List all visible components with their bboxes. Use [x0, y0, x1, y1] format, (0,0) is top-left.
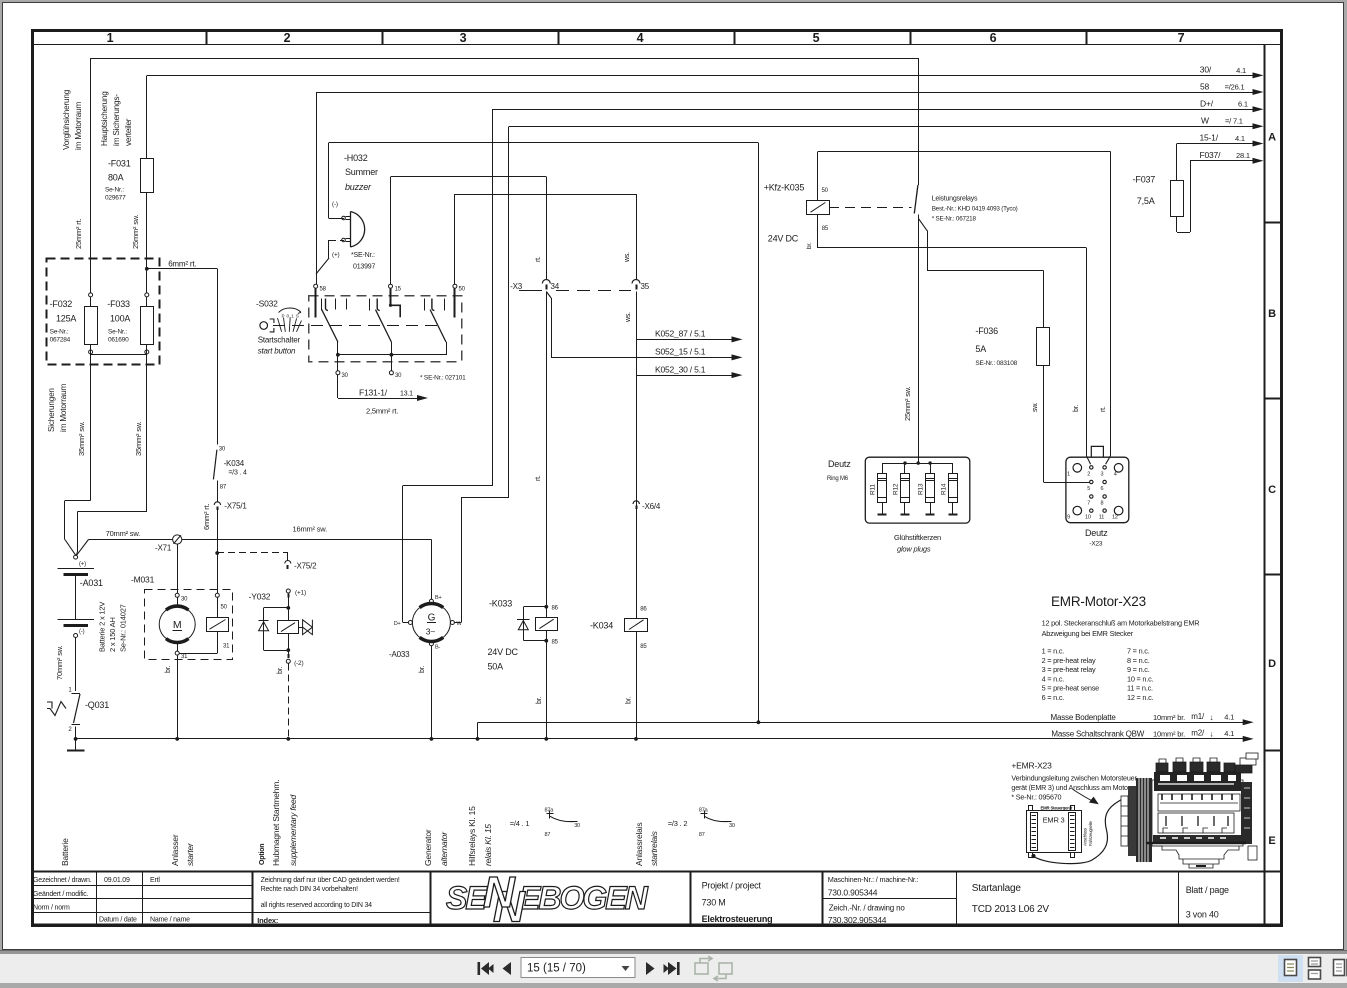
- svg-text:11 = n.c.: 11 = n.c.: [1127, 684, 1153, 693]
- svg-text:=/3 . 4: =/3 . 4: [228, 470, 247, 477]
- svg-text:4.1: 4.1: [1235, 134, 1245, 143]
- svg-text:Index:: Index:: [257, 916, 278, 925]
- wire into pin2: [1087, 456, 1091, 464]
- fuse clip F033 top: [145, 293, 149, 297]
- svg-text:2 x 150 AH: 2 x 150 AH: [108, 617, 117, 652]
- svg-text:2 = pre-heat relay: 2 = pre-heat relay: [1042, 656, 1096, 665]
- wire W staircase: [454, 622, 461, 624]
- valve symbol Y032: [299, 627, 303, 629]
- wire K035 coil bottom: [817, 214, 819, 248]
- svg-text:6mm² rt.: 6mm² rt.: [168, 260, 196, 269]
- pin 4 X23: [1114, 464, 1123, 473]
- terminal 15 S032: [389, 284, 393, 288]
- wire masse bodenplatte riser: [477, 722, 479, 739]
- svg-text:067284: 067284: [50, 337, 71, 344]
- wire F031 to F033: [146, 192, 148, 293]
- svg-text:Batterie 2 x 12V: Batterie 2 x 12V: [98, 602, 107, 652]
- svg-text:sw.: sw.: [1032, 402, 1039, 412]
- connector X75/1: [214, 502, 220, 505]
- svg-text:Blatt / page: Blatt / page: [1186, 885, 1229, 895]
- svg-text:061690: 061690: [108, 337, 129, 344]
- title block divider x822: [822, 871, 824, 924]
- svg-text:125A: 125A: [56, 314, 76, 324]
- toolbar continuous layout button: [1309, 958, 1321, 980]
- svg-text:1: 1: [1067, 472, 1070, 478]
- fuse clip F033 bottom: [145, 350, 149, 354]
- svg-text:im Sicherungs-: im Sicherungs-: [112, 94, 121, 146]
- generator A033 terminal B-: [429, 642, 433, 646]
- svg-text:Masse Schaltschrank QBW: Masse Schaltschrank QBW: [1051, 730, 1144, 739]
- engine illustration: [1121, 753, 1258, 868]
- svg-text:4: 4: [637, 31, 644, 45]
- column tick 4: [734, 30, 736, 45]
- wire coil to (-2): [288, 634, 290, 657]
- svg-text:=/ 7.1: =/ 7.1: [1225, 117, 1243, 126]
- svg-text:rt.: rt.: [1100, 406, 1107, 412]
- svg-text:7,5A: 7,5A: [1137, 196, 1155, 206]
- svg-text:6: 6: [1101, 486, 1104, 492]
- fuse F031: [141, 159, 154, 193]
- svg-text:A: A: [1268, 132, 1276, 144]
- logo SENNEBOGEN: [446, 868, 649, 932]
- svg-text:730 M: 730 M: [702, 898, 726, 908]
- svg-text:=/26.1: =/26.1: [1225, 83, 1245, 92]
- arrow 30/4.1: [1253, 72, 1264, 78]
- arrow masse schaltschrank: [1243, 736, 1254, 742]
- wire K034 85 to ground: [636, 632, 638, 739]
- svg-text:buzzer: buzzer: [345, 182, 372, 192]
- svg-text:11: 11: [1099, 515, 1104, 521]
- svg-text:Glühstiftkerzen: Glühstiftkerzen: [894, 533, 941, 542]
- svg-text:35: 35: [641, 282, 650, 291]
- svg-text:2: 2: [284, 31, 291, 45]
- svg-text:6.1: 6.1: [1238, 100, 1248, 109]
- svg-text:50: 50: [459, 287, 466, 293]
- svg-text:P 0 1 S: P 0 1 S: [282, 314, 300, 319]
- wire F037 top: [1176, 144, 1178, 181]
- svg-text:* Se-Nr.: 095670: * Se-Nr.: 095670: [1011, 793, 1061, 802]
- EMR 3 connector strip left: [1031, 813, 1038, 851]
- column tick 3: [558, 30, 560, 45]
- node bus feed: [917, 461, 920, 464]
- wire X71 down to starter 30: [177, 544, 179, 593]
- title block divider x957: [956, 871, 958, 924]
- glow plug R14: [952, 463, 954, 473]
- wire 50 to solenoid coil: [217, 597, 219, 617]
- pin 10 X23: [1090, 509, 1093, 512]
- terminal 30a S032: [336, 371, 340, 375]
- wire F032 down to battery: [90, 355, 92, 501]
- svg-text:029677: 029677: [105, 195, 126, 202]
- svg-text:87a: 87a: [699, 808, 709, 814]
- svg-text:-K034: -K034: [224, 459, 245, 468]
- connector X23 key notch: [1091, 446, 1103, 457]
- svg-text:6 = n.c.: 6 = n.c.: [1042, 693, 1065, 702]
- svg-text:(-2): (-2): [294, 660, 303, 667]
- svg-text:Se-Nr.: 014027: Se-Nr.: 014027: [119, 604, 128, 652]
- wire H032 left drop: [328, 143, 330, 218]
- relay coil K033: [536, 618, 558, 631]
- svg-text:4.1: 4.1: [1236, 66, 1246, 75]
- wire Y032 dashed to ground: [288, 663, 290, 739]
- wire K033 coil stub: [546, 607, 548, 618]
- wire contact to glow plugs: [918, 218, 920, 461]
- wire D+/6.1 line y109: [493, 109, 1253, 111]
- wire D+ staircase: [403, 622, 408, 624]
- glow plug bus: [882, 463, 953, 465]
- svg-text:9 = n.c.: 9 = n.c.: [1127, 665, 1150, 674]
- pin 1 X23: [1073, 464, 1082, 473]
- fixed contacts S032 group2: [369, 299, 371, 311]
- svg-text:35mm² sw.: 35mm² sw.: [77, 421, 86, 456]
- title block divider x431: [430, 871, 432, 924]
- svg-text:Se-Nr.:: Se-Nr.:: [50, 329, 69, 336]
- generator A033 terminal D+: [408, 621, 412, 625]
- wire bar to terminal 30a: [337, 355, 339, 371]
- svg-text:87: 87: [545, 832, 551, 838]
- node bus R12: [903, 461, 906, 464]
- generator A033 body: [412, 604, 450, 642]
- fixed contacts S032 group3: [424, 299, 426, 311]
- svg-text:30/: 30/: [1200, 65, 1212, 75]
- svg-text:br.: br.: [806, 242, 813, 249]
- EMR 3 connector strip right: [1069, 813, 1076, 851]
- svg-text:Deutz: Deutz: [1085, 528, 1108, 538]
- wire 58 bus drop: [316, 92, 318, 284]
- pin 12 X23: [1114, 506, 1123, 515]
- svg-text:+Kfz-K035: +Kfz-K035: [764, 183, 805, 193]
- toolbar previous view button disabled: [695, 956, 712, 974]
- arrow 15-1/4.1: [1253, 141, 1264, 147]
- svg-text:85: 85: [822, 226, 829, 232]
- svg-text:50: 50: [822, 188, 829, 194]
- svg-text:B+: B+: [435, 595, 441, 601]
- wire F036 to X23 pin5: [1043, 366, 1045, 483]
- svg-text:Zeich.-Nr. / drawing no: Zeich.-Nr. / drawing no: [829, 904, 906, 913]
- toolbar single page layout button active: [1278, 955, 1303, 982]
- svg-text:br.: br.: [165, 666, 172, 673]
- svg-text:-F033: -F033: [107, 299, 130, 309]
- wire F037 bottom jog: [1176, 216, 1178, 232]
- svg-text:85: 85: [640, 644, 647, 650]
- svg-text:5A: 5A: [975, 344, 986, 354]
- node bus R13: [928, 461, 931, 464]
- svg-text:im Motorraum: im Motorraum: [74, 102, 83, 150]
- svg-text:Gezeichnet / drawn.: Gezeichnet / drawn.: [33, 877, 92, 884]
- svg-text:-X75/2: -X75/2: [294, 562, 317, 571]
- generator A033 terminal B+: [429, 599, 433, 603]
- svg-text:58: 58: [1200, 81, 1210, 91]
- svg-text:Rechte nach DIN 34 vorbehalten: Rechte nach DIN 34 vorbehalten!: [261, 886, 359, 893]
- rotary switch symbol S032: [260, 322, 268, 330]
- svg-text:12 pol. Steckeranschluß am Mot: 12 pol. Steckeranschluß am Motorkabelstr…: [1042, 619, 1200, 628]
- svg-text:4.1: 4.1: [1224, 729, 1234, 738]
- arrow to cable: [1073, 790, 1092, 801]
- svg-text:S052_15 / 5.1: S052_15 / 5.1: [655, 347, 706, 357]
- node H032 masse: [757, 720, 761, 724]
- svg-text:Startanlage: Startanlage: [972, 883, 1022, 894]
- svg-text:013997: 013997: [353, 264, 375, 271]
- svg-text:2,5mm² rt.: 2,5mm² rt.: [366, 407, 398, 416]
- wire 50 up and over: [454, 194, 456, 284]
- svg-text:Projekt / project: Projekt / project: [702, 881, 762, 891]
- wire 30 battery bus y58: [91, 58, 919, 60]
- svg-text:87: 87: [699, 832, 705, 838]
- wire fuse bottoms join: [90, 344, 92, 355]
- svg-text:-H032: -H032: [344, 153, 368, 163]
- node riser ground: [476, 737, 480, 741]
- svg-text:28.1: 28.1: [1236, 151, 1250, 160]
- buzzer H032 body: [351, 212, 365, 248]
- svg-text:100A: 100A: [110, 314, 130, 324]
- frame right band line: [1264, 45, 1266, 925]
- svg-text:SE-Nr.: 083108: SE-Nr.: 083108: [975, 360, 1017, 367]
- diode K033 branch: [523, 606, 546, 608]
- wire K033 85 to ground: [546, 641, 548, 739]
- svg-text:D+: D+: [394, 621, 401, 627]
- ground symbol battery: [75, 739, 77, 751]
- svg-text:7: 7: [1087, 501, 1090, 507]
- starter M031 dashed box: [145, 590, 233, 660]
- svg-text:-F032: -F032: [50, 299, 73, 309]
- svg-text:EMR 3: EMR 3: [1043, 816, 1065, 825]
- dashed link K035: [829, 207, 911, 209]
- svg-text:EMR-Motor-X23: EMR-Motor-X23: [1051, 594, 1146, 609]
- battery A031 cell1 long plate: [58, 568, 94, 570]
- toolbar previous page button: [503, 962, 512, 975]
- svg-text:-K033: -K033: [489, 599, 512, 609]
- dashed box Sicherungen im Motorraum: [47, 259, 160, 365]
- start switch S032 dashed box: [309, 296, 462, 362]
- svg-text:B: B: [1268, 308, 1276, 320]
- svg-text:Name / name: Name / name: [150, 917, 190, 924]
- terminal (-2) Y032: [286, 659, 290, 663]
- column tick 1: [206, 30, 208, 45]
- svg-text:Summer: Summer: [345, 167, 378, 177]
- svg-text:EMR Steuergerät: EMR Steuergerät: [1041, 805, 1073, 810]
- pin 5 X23: [1090, 480, 1093, 483]
- svg-text:10mm² br.: 10mm² br.: [1153, 713, 1185, 722]
- svg-text:16mm² sw.: 16mm² sw.: [293, 525, 328, 534]
- wire buzzer plus to 58: [329, 240, 336, 242]
- wire masse bodenplatte: [478, 722, 1244, 724]
- svg-text:br.: br.: [536, 697, 543, 704]
- wire K052_87 line: [636, 339, 734, 341]
- title block divider x1179: [1178, 871, 1180, 924]
- wire F037/28.1 line y161: [1190, 160, 1253, 162]
- svg-text:Best.-Nr.: KHD 0419 4093 (Tyco: Best.-Nr.: KHD 0419 4093 (Tyco): [932, 206, 1018, 213]
- svg-text:30: 30: [342, 373, 349, 379]
- glow plug R11: [882, 463, 884, 473]
- wire (+1) to coil: [288, 598, 290, 621]
- connector X71: [173, 535, 182, 544]
- svg-text:-F031: -F031: [108, 159, 131, 169]
- svg-text:58: 58: [320, 287, 327, 293]
- svg-text:rt.: rt.: [535, 256, 542, 262]
- svg-text:4 = n.c.: 4 = n.c.: [1042, 674, 1065, 683]
- svg-text:start button: start button: [258, 347, 296, 356]
- svg-text:Anlassrelais: Anlassrelais: [634, 823, 644, 866]
- svg-text:6: 6: [990, 31, 997, 45]
- wire 70mm to X71: [89, 539, 173, 541]
- svg-text:6mm² rt.: 6mm² rt.: [202, 504, 211, 530]
- wire solenoid to 31 node: [217, 631, 219, 653]
- svg-text:80A: 80A: [108, 173, 124, 183]
- fixed contacts S032 group1: [321, 299, 323, 311]
- svg-text:24V DC: 24V DC: [768, 234, 799, 244]
- svg-text:Geändert / modific.: Geändert / modific.: [33, 891, 89, 898]
- wire W/7.1 line y126: [509, 126, 1253, 128]
- svg-text:-K034: -K034: [590, 621, 613, 631]
- toolbar facing pages layout button: [1334, 960, 1347, 976]
- svg-text:* SE-Nr.: 027101: * SE-Nr.: 027101: [420, 375, 466, 382]
- svg-text:24V DC: 24V DC: [488, 647, 519, 657]
- svg-text:E: E: [1268, 835, 1275, 847]
- svg-text:m1/: m1/: [1191, 712, 1205, 721]
- wire F033 down to battery: [146, 355, 148, 512]
- svg-text:7: 7: [1178, 31, 1185, 45]
- node common bar left: [336, 353, 340, 357]
- terminal (+1) Y032: [286, 589, 290, 593]
- node K033 86: [544, 605, 548, 609]
- svg-text:8 = n.c.: 8 = n.c.: [1127, 656, 1150, 665]
- svg-text:m2/: m2/: [1191, 729, 1205, 738]
- svg-text:Anschluss: Anschluss: [1083, 828, 1088, 846]
- svg-text:ws.: ws.: [624, 252, 631, 263]
- wire 15-1/4.1 line y143: [1177, 143, 1253, 145]
- svg-text:Generator: Generator: [423, 829, 433, 866]
- buzzer H032 contacts: [329, 218, 345, 220]
- frame bottom thick edge: [31, 923, 1282, 925]
- wire S052_15 line: [551, 357, 733, 359]
- svg-text:Verbindungsleitung zwischen Mo: Verbindungsleitung zwischen Motorsteuer-: [1011, 774, 1139, 783]
- svg-text:Datum / date: Datum / date: [99, 917, 137, 924]
- svg-text:alternator: alternator: [439, 831, 449, 866]
- wire bar to terminal 30b: [391, 355, 393, 371]
- fuse F032: [85, 307, 98, 345]
- svg-text:-Y032: -Y032: [249, 592, 271, 602]
- svg-text:br.: br.: [419, 666, 426, 673]
- row tick D/E: [1265, 750, 1282, 752]
- pin 3 X23: [1103, 466, 1106, 469]
- wire F131 from terminal 30a: [337, 375, 339, 398]
- svg-text:Batterie: Batterie: [60, 838, 70, 866]
- node generator ground: [430, 737, 434, 741]
- arrow F037/28.1: [1253, 158, 1264, 164]
- svg-text:50A: 50A: [488, 662, 504, 672]
- svg-text:9: 9: [1067, 515, 1070, 521]
- svg-text:25mm² sw.: 25mm² sw.: [131, 214, 140, 249]
- svg-text:-X23: -X23: [1089, 541, 1103, 548]
- svg-text:all rights reserved according: all rights reserved according to DIN 34: [261, 902, 373, 909]
- svg-text:3: 3: [1101, 472, 1104, 478]
- svg-text:10mm² br.: 10mm² br.: [1153, 730, 1185, 739]
- svg-text:30: 30: [574, 823, 580, 829]
- svg-text:3 = pre-heat relay: 3 = pre-heat relay: [1042, 665, 1096, 674]
- wire K035 coil top: [817, 152, 819, 201]
- terminal 30b S032: [389, 371, 393, 375]
- svg-text:730.302.905344: 730.302.905344: [828, 915, 887, 925]
- svg-text:87: 87: [220, 485, 227, 491]
- connector X75/2: [285, 561, 291, 564]
- svg-text:Leistungsrelays: Leistungsrelays: [932, 196, 978, 203]
- svg-text:5: 5: [813, 31, 820, 45]
- wire motor to 31: [177, 642, 179, 651]
- svg-text:Se-Nr.:: Se-Nr.:: [108, 329, 127, 336]
- wire battery plus diagonal to 70mm line: [76, 540, 88, 556]
- arrow F131: [417, 395, 428, 401]
- wire 30 into motor: [177, 597, 179, 606]
- battery A031 cell2 long plate: [58, 619, 94, 621]
- svg-text:N: N: [483, 868, 516, 917]
- node 6mm junction: [145, 267, 149, 271]
- wire 35 down to K052 tees: [636, 292, 638, 619]
- switch blade S032 3: [430, 310, 446, 342]
- svg-text:ws.: ws.: [625, 312, 632, 323]
- pin 2 X23: [1090, 466, 1093, 469]
- svg-text:K052_87 / 5.1: K052_87 / 5.1: [655, 329, 706, 339]
- pin 6 X23: [1103, 480, 1106, 483]
- column tick 2: [382, 30, 384, 45]
- EMR 3 control unit box: [1027, 811, 1082, 853]
- svg-text:-X75/1: -X75/1: [224, 502, 247, 511]
- toolbar first page button: [481, 962, 489, 975]
- arrow K052_30: [732, 372, 743, 378]
- svg-text:↓: ↓: [1210, 730, 1214, 739]
- svg-text:1: 1: [68, 688, 72, 694]
- wire 50 down to X3-35: [636, 194, 638, 280]
- svg-text:(+): (+): [332, 252, 340, 259]
- svg-text:M: M: [173, 619, 182, 631]
- fuse clip F032 top: [89, 293, 93, 297]
- connector X3-34: [542, 280, 550, 284]
- svg-text:TCD 2013 L06 2V: TCD 2013 L06 2V: [972, 904, 1050, 915]
- svg-text:Maschinen-Nr.: / machine-Nr.:: Maschinen-Nr.: / machine-Nr.:: [828, 875, 919, 884]
- svg-text:730.0.905344: 730.0.905344: [828, 888, 878, 898]
- svg-text:br.: br.: [1073, 405, 1080, 412]
- svg-text:-M031: -M031: [131, 575, 155, 585]
- svg-text:br.: br.: [626, 697, 633, 704]
- svg-text:-S032: -S032: [256, 299, 278, 309]
- connector X3-35: [632, 280, 640, 284]
- svg-text:10 = n.c.: 10 = n.c.: [1127, 674, 1154, 683]
- connector X6/4: [633, 501, 639, 504]
- svg-text:D+/: D+/: [1200, 98, 1214, 108]
- svg-text:R14: R14: [940, 483, 947, 495]
- wire 16mm X71 to generator B+: [182, 539, 432, 541]
- wire battery minus to Q031: [75, 638, 77, 692]
- wire 34 jog to S052 line: [546, 292, 551, 299]
- dashed mechanical link S032: [273, 325, 438, 327]
- title block divider label col: [96, 871, 98, 924]
- wire into pin3: [1106, 456, 1111, 464]
- svg-text:12: 12: [1112, 515, 1118, 521]
- wire 34 straight down to K033: [546, 292, 548, 607]
- generator A033 terminal W: [450, 621, 454, 625]
- svg-text:Zeichnung darf nur über CAD g: Zeichnung darf nur über CAD geändert wer…: [261, 877, 400, 884]
- svg-text:gerät (EMR 3) und Anschluss am: gerät (EMR 3) und Anschluss am Motor: [1011, 783, 1130, 792]
- svg-text:rt.: rt.: [535, 475, 542, 481]
- svg-text:-F037: -F037: [1133, 175, 1156, 185]
- svg-text:=/3 . 2: =/3 . 2: [668, 819, 688, 828]
- svg-text:R13: R13: [918, 483, 925, 495]
- title block top line: [31, 871, 1281, 873]
- arrow 58/26.1: [1253, 89, 1264, 95]
- svg-text:3: 3: [460, 31, 467, 45]
- cable EMR to engine: [1033, 787, 1148, 864]
- svg-text:25mm² sw.: 25mm² sw.: [903, 386, 912, 421]
- svg-text:Se-Nr.:: Se-Nr.:: [105, 187, 124, 194]
